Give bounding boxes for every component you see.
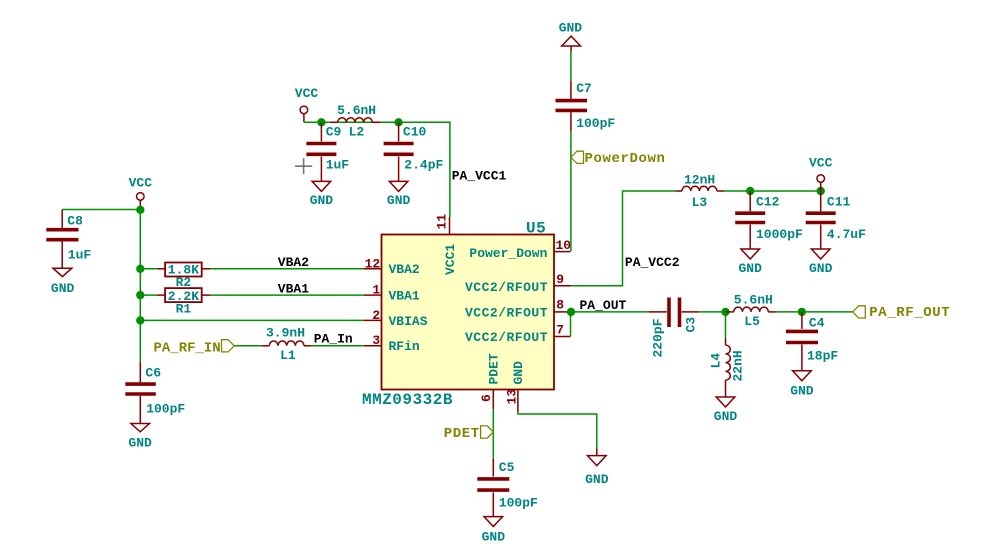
svg-text:PA_RF_OUT: PA_RF_OUT xyxy=(869,305,950,321)
svg-text:12: 12 xyxy=(365,256,381,271)
wire PA_RF_IN to L1 xyxy=(234,345,261,347)
svg-text:11: 11 xyxy=(434,214,449,230)
svg-text:VBA1: VBA1 xyxy=(278,281,309,296)
svg-text:GND: GND xyxy=(585,472,609,487)
svg-text:R1: R1 xyxy=(176,302,192,317)
junction bus row VBA2 xyxy=(136,265,144,273)
wire left bus vertical xyxy=(139,210,141,362)
junction at C4 xyxy=(798,308,806,316)
wire L2 to C10 xyxy=(381,121,399,123)
svg-text:GND: GND xyxy=(809,261,833,276)
svg-text:12nH: 12nH xyxy=(684,173,715,188)
svg-text:13: 13 xyxy=(504,389,519,405)
ground below C8 xyxy=(51,268,75,296)
svg-text:C12: C12 xyxy=(756,195,780,210)
svg-text:3.9nH: 3.9nH xyxy=(266,326,305,341)
svg-text:100pF: 100pF xyxy=(576,116,615,131)
svg-text:3: 3 xyxy=(372,333,380,348)
ground below C6 xyxy=(128,424,152,451)
wire pin 7 riser xyxy=(570,312,572,337)
wire pin 6 to C5 xyxy=(492,409,494,459)
inductor L5 5.6nH xyxy=(726,293,777,330)
svg-text:MMZ09332B: MMZ09332B xyxy=(362,391,453,409)
svg-text:8: 8 xyxy=(556,298,564,313)
junction at L4 xyxy=(721,308,729,316)
capacitor C8 xyxy=(46,210,91,269)
svg-text:VBIAS: VBIAS xyxy=(389,314,428,329)
wire C3 to L4 junction xyxy=(699,311,726,313)
svg-text:100pF: 100pF xyxy=(146,402,185,417)
svg-text:VBA2: VBA2 xyxy=(389,262,420,277)
svg-text:C7: C7 xyxy=(576,81,592,96)
power flag VCC left xyxy=(129,176,153,210)
wire bus to pin 2 VBIAS xyxy=(140,319,363,321)
pin 7 stub xyxy=(465,323,571,346)
capacitor C6 xyxy=(125,362,185,424)
svg-text:VCC: VCC xyxy=(129,176,153,191)
inductor L2 5.6nH xyxy=(321,103,380,140)
svg-text:VCC: VCC xyxy=(295,86,319,101)
inductor L1 3.9nH xyxy=(262,326,312,364)
svg-text:1: 1 xyxy=(372,283,380,298)
ground below C10 xyxy=(387,181,411,208)
pin 3 stub xyxy=(364,333,420,354)
svg-text:VCC: VCC xyxy=(809,156,833,171)
ground below C9 xyxy=(310,181,334,208)
wire pin 9 to L3 xyxy=(571,191,675,286)
svg-text:5.6nH: 5.6nH xyxy=(337,103,376,118)
ground pin 13 xyxy=(585,449,609,488)
svg-text:VBA1: VBA1 xyxy=(389,289,420,304)
pin 10 stub xyxy=(469,238,571,261)
wire L3 to VCC right xyxy=(724,190,821,192)
wire VCC to C8 xyxy=(62,209,140,211)
svg-text:L2: L2 xyxy=(349,125,365,140)
wire pin 8 to C3 xyxy=(571,311,648,313)
inductor L4 22nH vertical xyxy=(709,312,746,397)
svg-text:PowerDown: PowerDown xyxy=(585,151,666,167)
power flag VCC top (C9/L2) xyxy=(295,86,319,122)
capacitor C7 xyxy=(556,81,616,131)
svg-text:2: 2 xyxy=(372,308,380,323)
capacitor C4 xyxy=(786,312,838,371)
pin 13 stub bottom xyxy=(504,361,526,412)
svg-text:C4: C4 xyxy=(809,316,825,331)
wire R1 to pin 1 xyxy=(210,294,363,296)
svg-text:10: 10 xyxy=(556,238,572,253)
pin 1 stub xyxy=(364,283,420,304)
svg-text:1000pF: 1000pF xyxy=(756,227,803,242)
svg-text:GND: GND xyxy=(51,281,75,296)
junction at C9 xyxy=(317,118,325,126)
wire bus to R2 xyxy=(140,268,157,270)
svg-text:18pF: 18pF xyxy=(807,349,838,364)
capacitor C9 xyxy=(306,122,349,181)
svg-text:VCC1: VCC1 xyxy=(443,244,458,275)
junction at pin 8 xyxy=(567,308,575,316)
svg-text:1uF: 1uF xyxy=(326,158,350,173)
capacitor C12 xyxy=(735,191,803,249)
svg-text:C11: C11 xyxy=(827,195,851,210)
svg-text:VCC2/RFOUT: VCC2/RFOUT xyxy=(465,280,548,295)
svg-text:C9: C9 xyxy=(326,125,342,140)
svg-text:VBA2: VBA2 xyxy=(278,255,309,270)
wire GND to C7 xyxy=(570,52,572,81)
svg-text:VCC2/RFOUT: VCC2/RFOUT xyxy=(465,330,548,345)
svg-text:22nH: 22nH xyxy=(731,350,746,381)
wire VCC top to corner PA_VCC1 xyxy=(304,122,450,217)
svg-text:4.7uF: 4.7uF xyxy=(827,227,866,242)
svg-text:GND: GND xyxy=(482,530,506,545)
svg-text:PA_RF_IN: PA_RF_IN xyxy=(154,340,221,356)
ground below C5 xyxy=(482,517,506,545)
svg-text:PA_OUT: PA_OUT xyxy=(580,298,627,313)
junction bus row VBA1 xyxy=(136,291,144,299)
svg-text:GND: GND xyxy=(128,436,152,451)
pin 8 stub xyxy=(465,298,567,321)
svg-text:PA_In: PA_In xyxy=(314,332,353,347)
capacitor C11 xyxy=(806,191,866,249)
svg-text:6: 6 xyxy=(479,394,494,402)
svg-text:220pF: 220pF xyxy=(651,318,666,357)
svg-text:C8: C8 xyxy=(67,214,83,229)
wire L1 to pin 3 xyxy=(312,345,364,347)
hierarchical label PowerDown xyxy=(571,151,666,167)
capacitor C5 xyxy=(477,459,538,517)
pin 12 stub xyxy=(364,256,420,277)
svg-text:GND: GND xyxy=(739,261,763,276)
svg-text:GND: GND xyxy=(714,409,738,424)
junction at C12 xyxy=(746,187,754,195)
ground below C11 xyxy=(809,249,833,276)
svg-text:GND: GND xyxy=(310,193,334,208)
hierarchical label PDET xyxy=(444,426,494,442)
ground below C12 xyxy=(739,249,763,276)
pin 2 stub xyxy=(364,308,428,329)
svg-text:GND: GND xyxy=(559,21,583,36)
svg-text:GND: GND xyxy=(790,384,814,399)
svg-text:PA_VCC2: PA_VCC2 xyxy=(625,255,680,270)
svg-text:100pF: 100pF xyxy=(499,496,538,511)
junction below VCC left xyxy=(136,206,144,214)
svg-text:C6: C6 xyxy=(145,366,161,381)
ground below L4 xyxy=(714,397,738,424)
svg-text:1uF: 1uF xyxy=(68,248,92,263)
wire C7 to pin 10 xyxy=(570,131,572,251)
svg-text:VCC2/RFOUT: VCC2/RFOUT xyxy=(465,306,548,321)
svg-text:PA_VCC1: PA_VCC1 xyxy=(452,168,507,183)
svg-text:5.6nH: 5.6nH xyxy=(734,293,773,308)
junction bus row VBIAS xyxy=(136,316,144,324)
svg-text:L5: L5 xyxy=(744,314,760,329)
wire R2 to pin 12 xyxy=(210,268,363,270)
capacitor C10 xyxy=(384,122,444,181)
wire pin 13 to ground xyxy=(518,412,597,449)
svg-text:L3: L3 xyxy=(692,195,708,210)
wire bus to R1 xyxy=(140,294,157,296)
pin 9 stub xyxy=(465,272,571,295)
svg-text:2.4pF: 2.4pF xyxy=(404,158,443,173)
pin 6 stub bottom xyxy=(479,353,502,409)
IC U5 MMZ09332B body xyxy=(362,220,554,410)
resistor R2 1.8K xyxy=(158,263,211,290)
hierarchical label PA_RF_IN xyxy=(154,340,235,357)
hierarchical label PA_RF_OUT xyxy=(853,305,951,321)
svg-text:PDET: PDET xyxy=(444,426,480,442)
svg-text:L4: L4 xyxy=(709,353,724,369)
svg-text:C10: C10 xyxy=(403,125,427,140)
junction at C10 xyxy=(394,118,402,126)
junction at C11 xyxy=(817,187,825,195)
wire L5 to C4 junction xyxy=(777,311,853,313)
svg-text:7: 7 xyxy=(556,323,564,338)
anchor cross C9 xyxy=(295,158,312,174)
svg-text:RFin: RFin xyxy=(389,339,420,354)
ground below C4 xyxy=(790,371,814,399)
svg-text:Power_Down: Power_Down xyxy=(469,246,547,261)
inductor L3 12nH xyxy=(675,173,724,211)
svg-text:GND: GND xyxy=(387,193,411,208)
pin 11 stub top xyxy=(434,214,458,275)
svg-text:U5: U5 xyxy=(526,220,546,238)
ground above C7 xyxy=(559,21,583,52)
power flag VCC right xyxy=(809,156,833,192)
svg-text:L1: L1 xyxy=(280,348,296,363)
svg-text:PDET: PDET xyxy=(487,353,502,384)
svg-text:C3: C3 xyxy=(684,317,699,333)
svg-text:9: 9 xyxy=(556,272,564,287)
svg-text:GND: GND xyxy=(511,361,526,385)
resistor R1 2.2K xyxy=(158,288,211,316)
svg-text:C5: C5 xyxy=(499,460,515,475)
capacitor C3 xyxy=(648,298,699,358)
